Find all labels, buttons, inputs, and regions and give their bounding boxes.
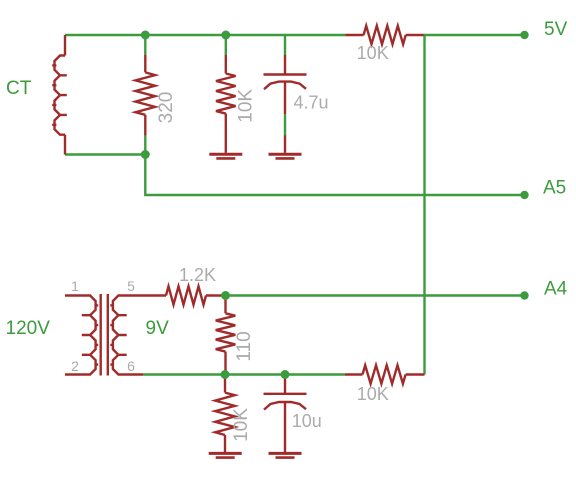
svg-text:5: 5: [127, 278, 135, 294]
svg-text:9V: 9V: [146, 318, 170, 339]
svg-text:10K: 10K: [236, 89, 257, 123]
svg-text:320: 320: [156, 92, 177, 124]
svg-text:A4: A4: [544, 279, 568, 300]
svg-text:4.7u: 4.7u: [293, 93, 328, 113]
svg-text:120V: 120V: [6, 318, 51, 339]
svg-text:2: 2: [71, 358, 79, 374]
svg-text:110: 110: [234, 331, 255, 361]
svg-text:10K: 10K: [357, 384, 389, 404]
svg-text:6: 6: [127, 358, 135, 374]
svg-text:5V: 5V: [544, 19, 568, 40]
svg-text:10u: 10u: [292, 411, 322, 431]
svg-text:A5: A5: [543, 178, 566, 199]
svg-text:10K: 10K: [231, 408, 252, 442]
svg-text:1.2K: 1.2K: [179, 265, 216, 285]
svg-text:CT: CT: [6, 78, 32, 99]
svg-text:1: 1: [71, 278, 79, 294]
svg-text:10K: 10K: [357, 43, 389, 63]
